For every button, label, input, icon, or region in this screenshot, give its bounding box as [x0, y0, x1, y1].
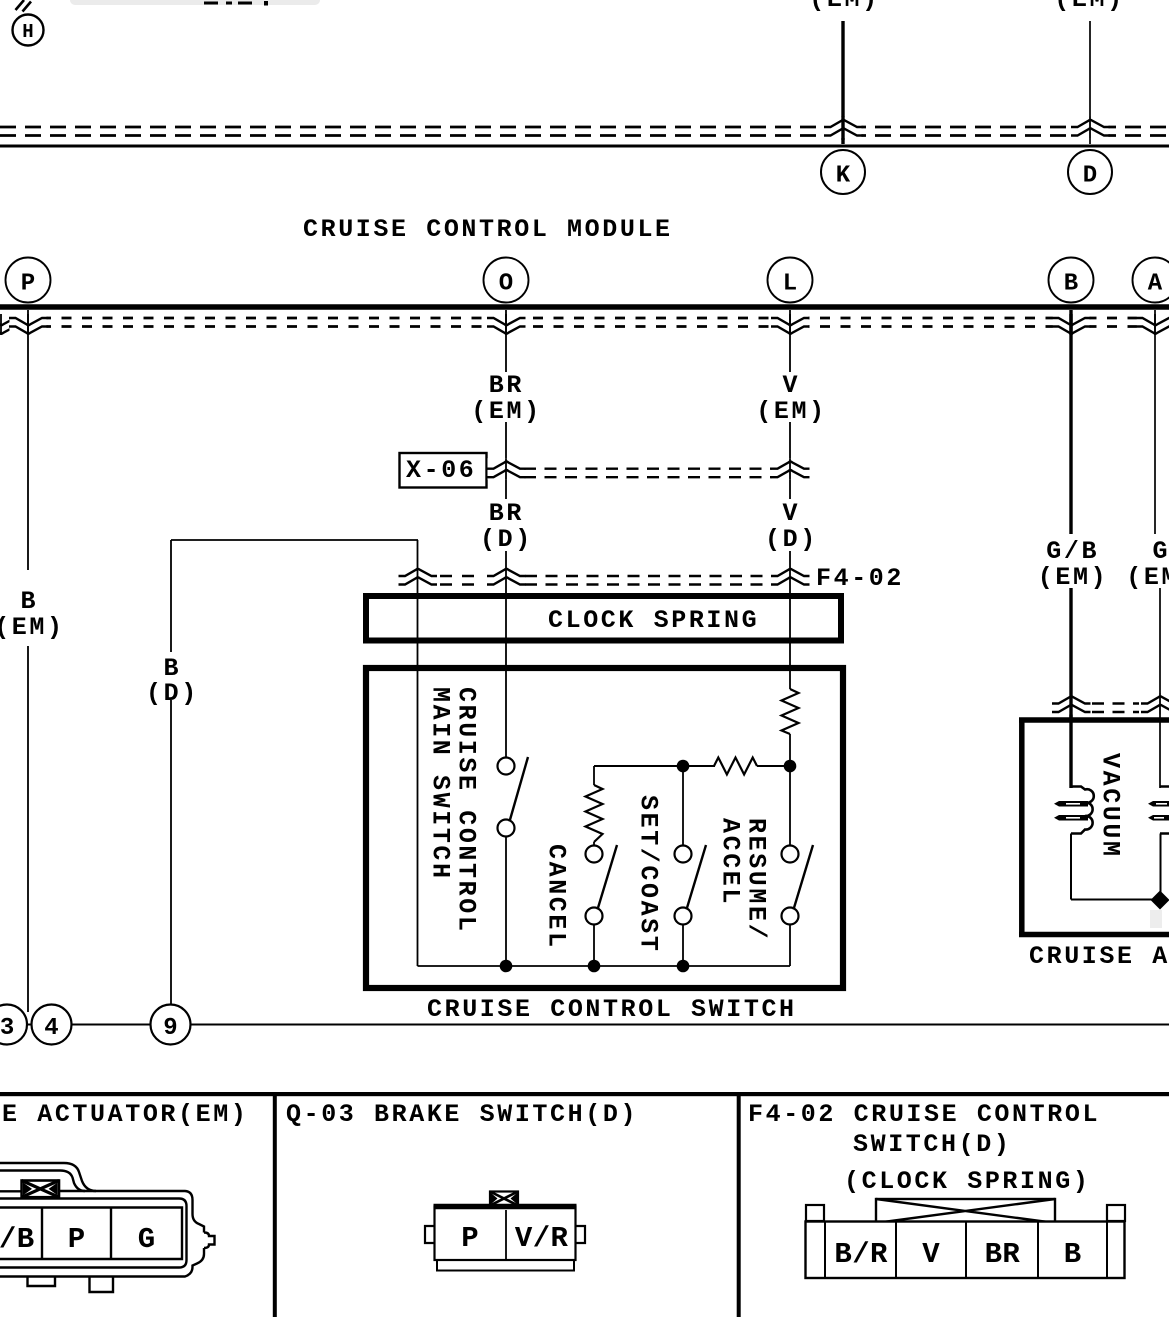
connector inner shell: [0, 1199, 187, 1268]
wire B (D) horizontal run: [171, 539, 418, 541]
svg-text:SET/COAST: SET/COAST: [634, 795, 663, 953]
connector symbol F4-02 right: [771, 566, 810, 588]
label CANCEL (rotated): [542, 844, 571, 950]
pin B: [1049, 258, 1094, 303]
pin O: [484, 258, 529, 303]
brake switch left tab: [425, 1226, 435, 1243]
clock spring box: [366, 596, 841, 641]
wire second coil down: [1160, 834, 1162, 896]
resistor (horizontal): [714, 758, 757, 775]
brake switch bottom flange: [437, 1260, 574, 1270]
svg-text:A: A: [1148, 271, 1163, 298]
svg-text:(EM): (EM): [471, 397, 541, 426]
connector symbol at A: [1136, 314, 1169, 335]
connector symbol at D: [1071, 117, 1110, 139]
wire (cut) top-left: [16, 0, 32, 12]
cancel blade: [598, 845, 618, 910]
actuator dashed joint line: [1092, 704, 1139, 713]
switch common rail: [418, 965, 791, 967]
svg-text:K: K: [836, 163, 851, 190]
bus dashed pair: [0, 318, 1169, 327]
svg-text:B: B: [1064, 271, 1078, 298]
wire G (EM) from pin A: [1155, 310, 1160, 788]
F4-02 dashed joint line: [440, 576, 769, 585]
pin A: [1133, 258, 1169, 303]
connector symbol F4-02 mid: [487, 566, 526, 588]
svg-text:RESUME/: RESUME/: [742, 818, 771, 941]
svg-text:V/R: V/R: [515, 1222, 569, 1255]
pin L: [768, 258, 813, 303]
connector foot 1: [28, 1278, 56, 1287]
label CRUISE CONTROL MAIN SWITCH (rotated): [426, 687, 481, 933]
svg-text:ACCEL: ACCEL: [716, 818, 745, 906]
main switch contact bottom: [498, 820, 515, 837]
panel divider 1: [273, 1096, 277, 1317]
svg-text:3: 3: [0, 1015, 14, 1042]
cruise control switch box: [366, 668, 843, 988]
svg-text:G/B: G/B: [1046, 537, 1099, 566]
wire BR from pin O: [505, 310, 507, 757]
connector outer shell: [0, 1191, 204, 1277]
svg-text:F4-02: F4-02: [816, 564, 904, 593]
clock spring connector right tab: [1107, 1205, 1125, 1221]
junction dot RESUME: [784, 760, 797, 773]
wire coil to node: [1071, 834, 1155, 900]
text fragment (cut): [204, 1, 268, 6]
svg-text:H: H: [22, 21, 33, 43]
connector pin row: [0, 1208, 182, 1260]
set/coast contact bottom: [675, 908, 692, 925]
label VACUUM (rotated): [1096, 753, 1125, 859]
clock spring connector body: [806, 1222, 1125, 1279]
svg-text:CRUISE CONTROL: CRUISE CONTROL: [452, 687, 481, 933]
resistor (vertical, V wire): [782, 689, 799, 734]
svg-text:CRUISE ACTUATOR: CRUISE ACTUATOR: [1029, 942, 1169, 971]
svg-text:P: P: [21, 271, 35, 298]
wire resume to rail: [789, 925, 791, 966]
wire into main switch: [417, 540, 419, 966]
wire set/coast branch: [682, 766, 684, 845]
main switch contact top: [498, 758, 515, 775]
set/coast blade: [687, 845, 707, 910]
junction dot rail set/coast: [677, 960, 690, 973]
junction dot rail cancel: [588, 960, 601, 973]
cruise control module bus: [0, 304, 1169, 310]
svg-text:B/R: B/R: [834, 1238, 888, 1271]
svg-text:SWITCH(D): SWITCH(D): [853, 1130, 1011, 1159]
svg-text:CRUISE CONTROL SWITCH: CRUISE CONTROL SWITCH: [427, 995, 797, 1024]
svg-text:G: G: [1153, 537, 1169, 566]
resume/accel blade: [794, 845, 814, 910]
ground wire run (bottom): [27, 1024, 1169, 1026]
connector symbol (cut) left edge: [0, 314, 21, 335]
svg-text:V: V: [922, 1238, 940, 1271]
connector key (bowtie): [22, 1181, 59, 1198]
svg-text:VACUUM: VACUUM: [1096, 753, 1125, 859]
junction diamond: [1151, 891, 1169, 910]
brake switch right tab: [576, 1226, 586, 1243]
coil core bars: [1054, 801, 1088, 821]
svg-text:G: G: [138, 1223, 156, 1256]
svg-text:(CLOCK SPRING): (CLOCK SPRING): [844, 1167, 1090, 1196]
svg-text:D: D: [1083, 163, 1097, 190]
svg-text:(EM): (EM): [0, 613, 65, 642]
junction dot rail main: [500, 960, 513, 973]
svg-text:BR: BR: [985, 1238, 1021, 1271]
cancel contact top: [586, 846, 603, 863]
svg-text:(EM): (EM): [1126, 563, 1169, 592]
wire cancel to rail: [593, 925, 595, 966]
svg-text:(EM): (EM): [809, 0, 879, 14]
connector symbol actuator G/B: [1052, 693, 1091, 715]
connector symbol at B: [1052, 314, 1091, 335]
svg-text:CANCEL: CANCEL: [542, 844, 571, 950]
brake switch connector key: [490, 1192, 518, 1206]
connector foot 2: [90, 1278, 114, 1293]
junction dot SET/COAST: [677, 760, 690, 773]
svg-text:CRUISE ACTUATOR(EM): CRUISE ACTUATOR(EM): [0, 1100, 248, 1129]
X-06 dashed joint line: [524, 469, 772, 478]
svg-text:X-06: X-06: [406, 456, 476, 485]
pin 9: [151, 1005, 191, 1045]
harness line (top): [0, 145, 1169, 148]
connector symbol at L: [771, 314, 810, 335]
connector symbol X-06 at BR: [487, 458, 526, 480]
connector symbol at O: [487, 314, 526, 335]
pin D: [1068, 150, 1112, 194]
node wire horizontal: [594, 765, 790, 767]
label RESUME/ACCEL (rotated): [716, 818, 771, 941]
svg-text:MAIN SWITCH: MAIN SWITCH: [426, 687, 455, 881]
resume/accel contact top: [782, 846, 799, 863]
wire B (D) vertical to pin 9: [170, 540, 172, 1005]
pin 4: [32, 1005, 72, 1045]
cruise actuator box: [1019, 720, 1169, 935]
cancel contact bottom: [586, 908, 603, 925]
svg-text:(EM): (EM): [756, 397, 826, 426]
svg-text:(D): (D): [480, 525, 533, 554]
connector drawing CRUISE ACTUATOR: hump outline: [0, 1163, 96, 1191]
connector pin H: [13, 15, 44, 46]
svg-text:(D): (D): [146, 679, 199, 708]
harness dashed pair (top): [0, 127, 1169, 136]
coil core bars (second, cut): [1148, 801, 1169, 821]
svg-text:9: 9: [163, 1015, 177, 1042]
coil (second, cut): [1160, 787, 1169, 834]
clock spring connector key: [876, 1199, 1055, 1223]
wire to pin D: [1089, 21, 1091, 144]
clock spring connector left tab: [806, 1205, 824, 1221]
connector side tab: [204, 1233, 215, 1249]
pin 3 (cut): [0, 1005, 27, 1045]
wire set/coast to rail: [682, 925, 684, 966]
coil (vacuum solenoid): [1071, 787, 1094, 834]
svg-text:CLOCK SPRING: CLOCK SPRING: [548, 606, 759, 635]
svg-text:B: B: [1064, 1238, 1082, 1271]
svg-text:(D): (D): [765, 525, 818, 554]
faint trace below diamond: [1150, 910, 1162, 928]
svg-text:L: L: [783, 271, 797, 298]
panel divider 2: [737, 1096, 741, 1317]
wire V from pin L: [789, 310, 791, 845]
pin P: [6, 258, 51, 303]
svg-text:F4-02 CRUISE CONTROL: F4-02 CRUISE CONTROL: [748, 1100, 1100, 1129]
svg-text:BR: BR: [489, 371, 524, 400]
set/coast contact top: [675, 846, 692, 863]
resistor (cancel): [586, 785, 603, 842]
connector symbol F4-02 left: [399, 566, 438, 588]
svg-text:(EM): (EM): [1038, 563, 1108, 592]
connector symbol actuator G: [1141, 693, 1169, 715]
bottom panel separator: [0, 1092, 1169, 1096]
svg-text:B: B: [21, 587, 39, 616]
connector symbol X-06 at V: [771, 458, 810, 480]
svg-text:P: P: [461, 1222, 479, 1255]
svg-text:(EM): (EM): [1054, 0, 1124, 14]
wire B (EM) from pin P: [27, 310, 29, 1012]
svg-text:O: O: [499, 271, 513, 298]
svg-text:Q-03 BRAKE SWITCH(D): Q-03 BRAKE SWITCH(D): [286, 1100, 638, 1129]
svg-text:CRUISE CONTROL MODULE: CRUISE CONTROL MODULE: [303, 215, 673, 244]
wire main switch to rail: [505, 837, 507, 966]
wire cancel branch: [593, 766, 595, 845]
connector symbol at K: [824, 117, 863, 139]
svg-text:BR: BR: [489, 499, 524, 528]
resume/accel contact bottom: [782, 908, 799, 925]
cut-off highlighted label (top edge): [70, 0, 320, 5]
svg-text:V: V: [783, 371, 801, 400]
connector symbol at P: [9, 314, 48, 335]
wire G/B (EM) from pin B: [1069, 310, 1072, 788]
connector X-06 box: [400, 453, 487, 488]
svg-text:4: 4: [44, 1015, 58, 1042]
svg-text:G/B: G/B: [0, 1223, 35, 1256]
pin K: [821, 150, 865, 194]
brake switch connector body: [435, 1207, 576, 1261]
main switch blade: [510, 757, 529, 822]
svg-text:V: V: [783, 499, 801, 528]
svg-text:P: P: [68, 1223, 86, 1256]
label SET/COAST (rotated): [634, 795, 663, 953]
wire to pin K: [841, 21, 844, 144]
